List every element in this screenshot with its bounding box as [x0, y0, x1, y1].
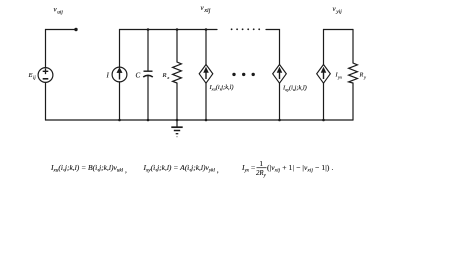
node terminal dot v_uij	[74, 28, 77, 31]
wire diamond Ixu vertical bottom	[205, 83, 207, 120]
svg-text:C: C	[136, 72, 141, 80]
wire diamond Iyx vertical top	[323, 30, 325, 65]
ground	[171, 127, 182, 136]
wire I source vertical top	[119, 30, 121, 68]
wire diamond Ixy vertical bottom	[279, 83, 281, 120]
wire resistor Rx vertical bottom	[176, 83, 178, 120]
wire E bottom vertical	[45, 83, 47, 121]
dotted wire continuation	[231, 28, 260, 30]
wire diamond Iyx vertical bottom	[323, 83, 325, 120]
svg-text:R: R	[162, 72, 167, 79]
wire bottom ground rail	[46, 119, 354, 121]
resistor Ry	[349, 63, 358, 83]
resistor Rx	[173, 62, 182, 83]
svg-text:x: x	[166, 75, 169, 80]
controlled source Ixu diamond	[199, 65, 213, 84]
voltage source E_ij	[38, 68, 53, 83]
controlled source Iyx diamond	[317, 65, 331, 84]
wire top rail state node	[120, 29, 218, 31]
wire top rail output node	[324, 29, 354, 31]
svg-text:xij: xij	[203, 8, 210, 14]
wire diamond Ixu vertical top	[205, 30, 207, 65]
svg-text:yij: yij	[335, 9, 342, 15]
junction dots bottom rail	[118, 119, 121, 122]
wire E top vertical	[45, 30, 47, 68]
current source I	[112, 67, 127, 82]
wire ground stub	[176, 120, 178, 127]
wire resistor Rx vertical top	[176, 30, 178, 63]
wire resistor Ry vertical top	[352, 30, 354, 64]
svg-text:E: E	[28, 72, 33, 79]
wire I source vertical bottom	[119, 82, 121, 120]
capacitor C	[143, 71, 153, 77]
svg-text:R: R	[359, 72, 364, 79]
svg-text:1: 1	[260, 161, 263, 168]
controlled source Ixy diamond	[273, 65, 287, 84]
svg-text:yx: yx	[337, 74, 342, 79]
wire capacitor vertical top	[147, 30, 149, 72]
wire top rail segment right	[266, 30, 280, 65]
junction dots top rail	[147, 28, 150, 31]
wire resistor Ry vertical bottom	[352, 83, 354, 120]
node v_uij top wire	[46, 29, 77, 31]
ellipsis dots mid	[232, 73, 255, 76]
wire capacitor vertical bottom	[147, 76, 149, 120]
svg-text:uij: uij	[57, 10, 63, 16]
